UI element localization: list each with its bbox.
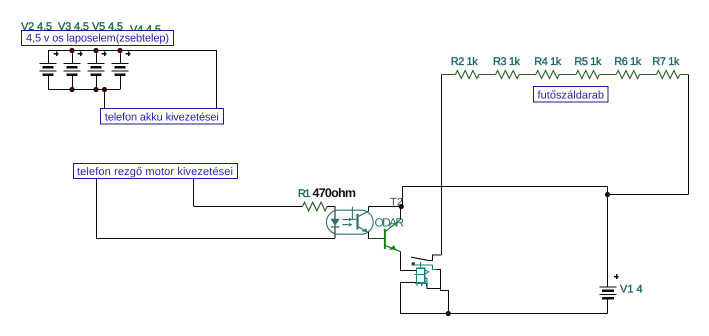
wire: armature out black continuation: [437, 269, 441, 271]
junction bottom rail at V3: [69, 87, 74, 92]
optocoupler U1 body: [327, 210, 374, 234]
wire: junction to heater right corner: [608, 194, 689, 196]
wire: lead to R1: [194, 206, 303, 208]
svg-text:telefon rezgő motor kivezetése: telefon rezgő motor kivezetései: [77, 166, 233, 178]
wire: T2 node up to top horizontal: [402, 187, 404, 207]
svg-text:470ohm: 470ohm: [313, 186, 357, 200]
wire: relay bump to right vertical: [427, 284, 441, 288]
battery V4: [112, 51, 131, 90]
svg-text:R2 1k: R2 1k: [451, 56, 479, 68]
battery V1: [600, 274, 619, 313]
svg-text:R7 1k: R7 1k: [652, 56, 680, 68]
battery V2: [40, 51, 59, 90]
battery V3: [64, 51, 83, 90]
wire: relay right side down to bottom junction: [441, 270, 449, 315]
resistor R1: [302, 202, 327, 211]
relay K1 armature bar: [411, 264, 432, 266]
optocoupler LED cathode bar: [331, 226, 340, 228]
wire: motor box right lead down: [193, 179, 195, 207]
relay K1 right bump: [425, 278, 427, 281]
wire: motor box left lead down: [96, 179, 98, 240]
relay K1 coil divider: [417, 273, 425, 275]
wire: battery top rail: [48, 50, 217, 52]
junction top rail at V4: [117, 48, 122, 53]
optocoupler emitter lead with arrow: [359, 227, 369, 232]
wire: relay armature out right (teal): [432, 265, 437, 270]
relay K1 left tick: [414, 273, 416, 275]
svg-text:V1 4: V1 4: [620, 284, 643, 296]
svg-text:4,5 v os laposelem(zsebtelep): 4,5 v os laposelem(zsebtelep): [26, 33, 169, 45]
optocoupler phototransistor base bar: [356, 214, 358, 230]
wire: R2-R3 link: [479, 74, 496, 76]
wire: heater chain left corner vertical: [441, 75, 443, 256]
svg-text:R1: R1: [298, 188, 311, 200]
annotation box: futoszaldarab: [534, 87, 609, 103]
wire: right vertical down to battery V1: [607, 187, 609, 287]
svg-text:R3 1k: R3 1k: [493, 56, 521, 68]
wire: R6-R7 link: [640, 74, 657, 76]
optocoupler LED triangle: [330, 219, 339, 226]
wire: opto collector to T2 node: [369, 206, 402, 208]
annotation box: telefon rezgo motor kivezetesei: [74, 164, 238, 179]
wire: R1 to optocoupler LED: [327, 206, 335, 208]
wire: T2 collector vertical: [400, 207, 402, 220]
relay K1 feet: [417, 284, 426, 286]
wire: R7 to right corner: [680, 74, 689, 76]
wire: bottom rail tap down to telefon akku box: [104, 90, 106, 109]
svg-text:telefon akku kivezetései: telefon akku kivezetései: [105, 111, 219, 123]
wire: corner to R2: [441, 74, 455, 76]
junction bottom rail tap: [102, 87, 107, 92]
resistor R2: [455, 71, 478, 79]
node bottom rail junction: [446, 311, 451, 316]
svg-text:futőszáldarab: futőszáldarab: [538, 89, 605, 101]
wire: opto emitter down: [368, 232, 370, 239]
wire: R5-R6 link: [599, 74, 616, 76]
svg-text:R5 1k: R5 1k: [574, 56, 602, 68]
annotation box: 4,5 v os laposelem(zsebtelep): [22, 31, 174, 46]
node T2 junction: [399, 204, 404, 209]
wire: battery bottom rail: [48, 89, 120, 91]
annotation box: telefon akku kivezetesei: [101, 109, 224, 125]
optocoupler light arrow 2: [343, 223, 353, 227]
wire: coil bottom out left and down: [401, 283, 417, 314]
junction bottom rail at V5: [93, 87, 98, 92]
wire: opto emitter to T2 base: [369, 238, 384, 240]
wire: bottom rail: [400, 313, 608, 315]
optocoupler collector lead: [359, 211, 369, 216]
battery V5: [88, 51, 107, 90]
junction top rail at V5: [93, 48, 98, 53]
wire: R4-R5 link: [559, 74, 576, 76]
relay K1 contact square: [412, 262, 415, 264]
wire: heater right vertical: [688, 75, 690, 195]
relay K1 coil box: [417, 268, 425, 282]
resistor R7: [656, 71, 679, 79]
wire: T2 emitter down: [400, 252, 402, 271]
relay K1 switch blade: [411, 257, 428, 260]
optocoupler base stub: [352, 207, 356, 220]
resistor R6: [616, 71, 639, 79]
wire: top rail down to telefon akku box: [216, 51, 218, 109]
relay K1 pivot tick: [420, 262, 422, 265]
wire: LED cathode return horizontal: [97, 238, 336, 240]
resistor R3: [496, 71, 519, 79]
wire: opto collector up: [368, 207, 370, 212]
resistor R5: [576, 71, 599, 79]
wire: top node horizontal: [403, 186, 608, 188]
resistor R4: [536, 71, 559, 79]
junction top rail at V3: [69, 48, 74, 53]
relay K1 arrow triangle: [425, 270, 429, 274]
wire: emitter to relay coil top: [400, 270, 417, 272]
wire: relay switch feed jog from chain: [428, 255, 442, 261]
svg-text:R6 1k: R6 1k: [614, 56, 642, 68]
optocoupler light arrow 1: [343, 218, 353, 222]
svg-text:ODAR: ODAR: [375, 216, 405, 230]
transistor T2: [384, 220, 401, 252]
wire: R3-R4 link: [519, 74, 536, 76]
relay K1 bar-coil link: [420, 265, 422, 268]
node V1 top junction: [605, 192, 610, 197]
relay K1 bottom bar: [415, 282, 428, 284]
wire: optocoupler LED through line: [334, 207, 336, 239]
svg-text:R4 1k: R4 1k: [534, 56, 562, 68]
